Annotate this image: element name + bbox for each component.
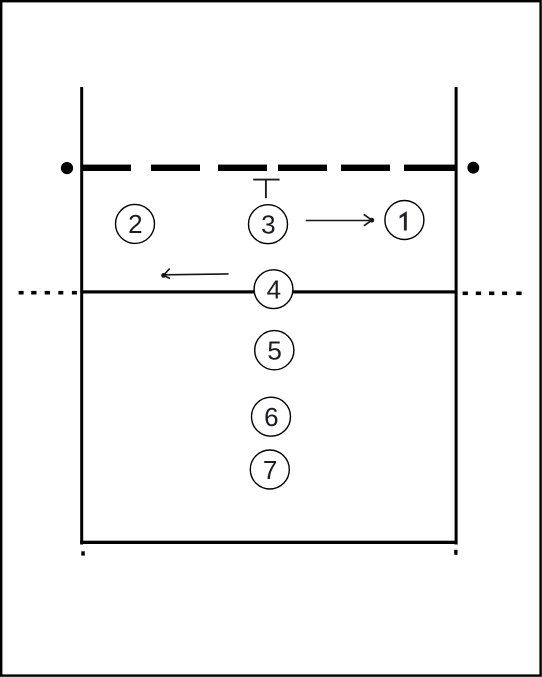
left baseline tick	[81, 551, 85, 555]
player circle 1	[385, 201, 424, 240]
left sideline	[80, 87, 83, 545]
right baseline tick	[454, 550, 457, 555]
player circle 4 (on center line)	[254, 270, 293, 309]
left dotted extension	[19, 291, 77, 295]
player circle 7	[250, 450, 289, 489]
svg-text:6: 6	[264, 402, 278, 432]
attack/center line	[81, 290, 457, 293]
right dotted extension	[463, 292, 522, 296]
left net post ball	[61, 162, 73, 174]
coach T marker	[253, 180, 279, 199]
player circle 6	[252, 397, 291, 436]
player circle 5	[255, 331, 294, 370]
player circle 3	[249, 205, 288, 244]
svg-text:7: 7	[263, 455, 277, 485]
right net post ball	[467, 162, 479, 174]
svg-text:5: 5	[267, 336, 281, 366]
baseline (end line)	[80, 541, 457, 544]
arrow from 3 to 1 (rightward)	[306, 214, 372, 226]
net (dashed line)	[81, 165, 457, 171]
right sideline	[455, 87, 458, 545]
svg-text:4: 4	[267, 275, 281, 305]
svg-text:2: 2	[128, 209, 142, 239]
svg-text:3: 3	[261, 210, 275, 240]
arrow from 4 area (leftward)	[164, 269, 229, 279]
player circle 2	[116, 204, 155, 243]
